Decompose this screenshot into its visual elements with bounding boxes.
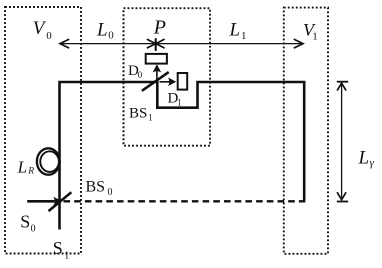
dashed beam line from BS0 to right fiber xyxy=(64,200,306,202)
arrowhead left end of L0 dimension xyxy=(60,39,69,48)
fiber loop main path (thick solid wire) xyxy=(60,82,305,230)
L_gamma top bar xyxy=(337,81,348,83)
svg-text:1: 1 xyxy=(148,113,153,123)
svg-text:L: L xyxy=(17,158,27,177)
svg-text:γ: γ xyxy=(370,157,375,169)
beam splitter BS1 (diagonal) xyxy=(142,72,169,91)
L_gamma bottom bar xyxy=(337,201,348,203)
svg-text:S: S xyxy=(53,238,63,258)
input stub S0 with arrowhead into BS0 xyxy=(27,200,54,203)
L_gamma top arrowhead xyxy=(337,83,346,91)
svg-text:R: R xyxy=(27,167,34,177)
fiber coil LR (outer loop) xyxy=(37,148,60,174)
svg-text:0: 0 xyxy=(46,30,52,42)
enclosure box V1 (right dotted rectangle) xyxy=(284,8,328,254)
svg-text:1: 1 xyxy=(177,98,182,108)
enclosure box P (middle dotted rectangle) xyxy=(124,8,211,146)
svg-text:L: L xyxy=(96,20,108,41)
svg-text:0: 0 xyxy=(31,223,36,234)
svg-text:L: L xyxy=(229,20,241,41)
arrow BS1 to D0 xyxy=(156,70,158,82)
svg-text:P: P xyxy=(153,17,166,39)
arrowhead right end of L1 dimension xyxy=(294,39,303,48)
enclosure box V0 (left dotted rectangle) xyxy=(5,7,81,254)
svg-text:L: L xyxy=(358,148,370,169)
svg-text:1: 1 xyxy=(64,251,69,262)
svg-text:V: V xyxy=(33,18,47,39)
svg-text:1: 1 xyxy=(312,30,318,42)
dimension line L_gamma (vertical) xyxy=(341,84,343,198)
dimension line L0/L1 (thin horizontal arrow line) xyxy=(60,43,303,45)
detector D1 (rectangle right of BS1) xyxy=(178,73,188,90)
node P double arrowheads xyxy=(147,39,165,48)
L_gamma bottom arrowhead xyxy=(337,192,346,200)
svg-text:S: S xyxy=(20,212,30,232)
svg-text:1: 1 xyxy=(241,30,247,42)
beam splitter BS0 (diagonal) xyxy=(49,192,72,211)
fiber coil LR (inner loop) xyxy=(40,151,59,172)
svg-text:0: 0 xyxy=(108,30,114,42)
svg-text:BS: BS xyxy=(129,105,147,121)
svg-text:0: 0 xyxy=(108,187,113,198)
detector D0 (rectangle above BS1) xyxy=(146,54,167,64)
svg-text:BS: BS xyxy=(86,178,106,195)
arrow BS1 to D1 xyxy=(160,81,172,83)
node P vertical tick xyxy=(155,38,157,51)
svg-text:0: 0 xyxy=(138,70,143,80)
